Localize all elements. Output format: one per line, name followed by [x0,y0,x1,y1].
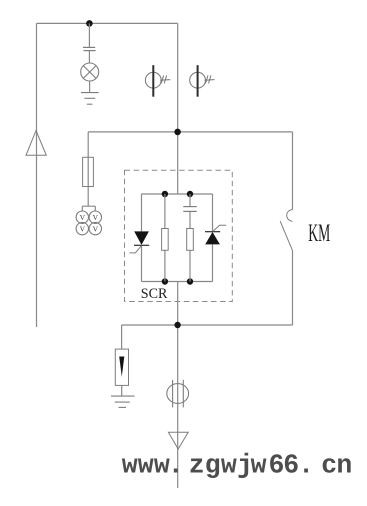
wire resistor R1 branch [164,194,166,282]
voltage transformer TV windings [76,211,101,235]
wire thyristor V1 branch [141,194,143,282]
wire thyristor V2 branch [212,194,214,282]
wire lamp branch upper [88,23,90,47]
wire center vertical lower [177,282,179,489]
wire lamp to ground [89,81,91,93]
wire fuse branch [87,132,89,206]
surge arrester F [115,349,128,385]
svg-text:V: V [93,225,99,234]
capacitor C1 [83,47,96,50]
svg-text:V: V [93,213,99,222]
node junction bottom bus [174,322,180,328]
svg-text:V: V [80,225,86,234]
wire TV tee [82,206,95,211]
wire SCR bottom rail [142,281,213,283]
wire left feeder [36,23,38,327]
ground under arrester [111,396,135,407]
contactor contact KM [280,210,292,251]
wire arrester branch [121,325,123,396]
surge counter left [145,65,170,97]
wire top bus [37,22,178,24]
ground under lamp [81,93,99,105]
node junction top bus [86,20,93,27]
wire bottom bus [122,324,293,326]
capacitor C2 [183,207,196,212]
svg-text:SCR: SCR [141,286,168,302]
thyristor V1 [129,231,149,253]
fuse FU [83,157,94,186]
node SCR rail dots [162,191,194,285]
wire center vertical upper [177,23,179,194]
arrow up on left feeder [26,131,46,156]
SCR dashed enclosure [125,170,233,301]
surge counter right [190,65,215,97]
resistor R1 [162,229,169,251]
lamp HL [81,63,99,81]
wire RC branch [189,194,191,282]
wire middle bus [88,131,292,133]
thyristor V2 [205,225,226,244]
wire KM branch lower [292,251,294,325]
wire KM branch upper [292,132,294,210]
svg-text:V: V [80,213,86,222]
resistor R2 [187,229,194,251]
arrow down at line end [168,432,188,449]
wire cap to lamp [88,51,90,64]
current transformer TA [167,380,189,408]
svg-text:KM: KM [308,220,330,247]
node junction middle bus [174,129,181,136]
wire SCR top rail [142,193,213,195]
